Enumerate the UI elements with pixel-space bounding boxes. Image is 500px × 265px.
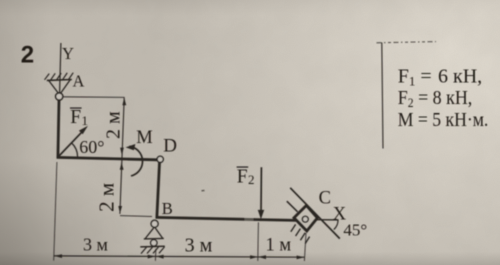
label M <box>136 128 152 148</box>
label F1 (with overline) <box>70 107 88 128</box>
data box border line <box>382 43 383 149</box>
dimension extension line from B to left <box>120 215 152 218</box>
svg-text:3 м: 3 м <box>83 235 108 255</box>
bottom extension line below F2 <box>257 222 260 261</box>
svg-text:45°: 45° <box>343 220 367 239</box>
label 60deg <box>79 137 104 157</box>
svg-text:F: F <box>237 167 248 188</box>
member B-C (horizontal beam) <box>156 216 297 221</box>
svg-text:A: A <box>73 71 85 90</box>
svg-text:2: 2 <box>248 172 255 187</box>
member E-D (horizontal frame bar) <box>57 157 158 159</box>
Y axis <box>60 43 74 93</box>
svg-text:B: B <box>162 199 173 218</box>
svg-text:2: 2 <box>21 42 34 69</box>
label A <box>73 71 85 90</box>
support C (slider in 45deg guide) <box>287 188 340 244</box>
dimension extension line from A <box>64 96 125 99</box>
label X <box>333 205 347 225</box>
problem number 2 <box>21 42 34 69</box>
bottom extension line below C <box>304 233 306 261</box>
label 1m <box>266 235 292 255</box>
angle arc 45 <box>334 220 338 229</box>
label 45deg <box>343 220 367 239</box>
svg-text:3 м: 3 м <box>185 235 213 257</box>
data box dashed top line <box>377 42 437 43</box>
bottom extension line below B <box>154 249 157 261</box>
svg-text:D: D <box>163 136 177 157</box>
given data text F2 <box>398 87 473 110</box>
label 2m lower (rotated) <box>95 183 119 212</box>
node D (pin circle) <box>157 156 163 162</box>
bottom dimension line with arrows <box>54 254 305 259</box>
label F2 (with overline) <box>237 166 255 187</box>
svg-text:1 м: 1 м <box>266 235 292 255</box>
svg-text:2 м: 2 м <box>95 183 119 212</box>
svg-text:F: F <box>70 107 81 128</box>
svg-text:M = 5 кН·м.: M = 5 кН·м. <box>398 109 489 131</box>
given data text F1 <box>398 65 482 88</box>
svg-text:2 м: 2 м <box>103 111 125 139</box>
ink speck <box>202 189 205 191</box>
label 3m right <box>185 235 213 257</box>
force F2 arrow <box>258 167 264 219</box>
X axis at C <box>316 219 338 221</box>
force F1 arrow <box>59 126 89 157</box>
label D <box>163 136 177 157</box>
label B <box>162 199 173 218</box>
svg-text:Y: Y <box>62 44 74 63</box>
angle arc 60 <box>71 143 77 157</box>
label 3m left <box>83 235 108 255</box>
svg-text:60°: 60° <box>79 137 104 157</box>
label 2m upper (rotated) <box>103 111 125 139</box>
support B (roller on hatched ground) <box>140 220 165 253</box>
vertical dimension line A-D-B <box>118 98 126 214</box>
support A (pinned, hatched ground) <box>45 73 74 100</box>
moment M arc (counterclockwise) <box>126 144 143 176</box>
member A-E (vertical frame bar) <box>58 100 59 158</box>
svg-text:M: M <box>136 128 152 148</box>
svg-text:C: C <box>319 189 331 209</box>
bottom extension line below corner E <box>54 162 57 261</box>
label C <box>319 189 331 209</box>
svg-text:1: 1 <box>82 113 89 128</box>
member D-B (vertical frame bar) <box>157 162 160 216</box>
given data text M <box>398 109 489 131</box>
